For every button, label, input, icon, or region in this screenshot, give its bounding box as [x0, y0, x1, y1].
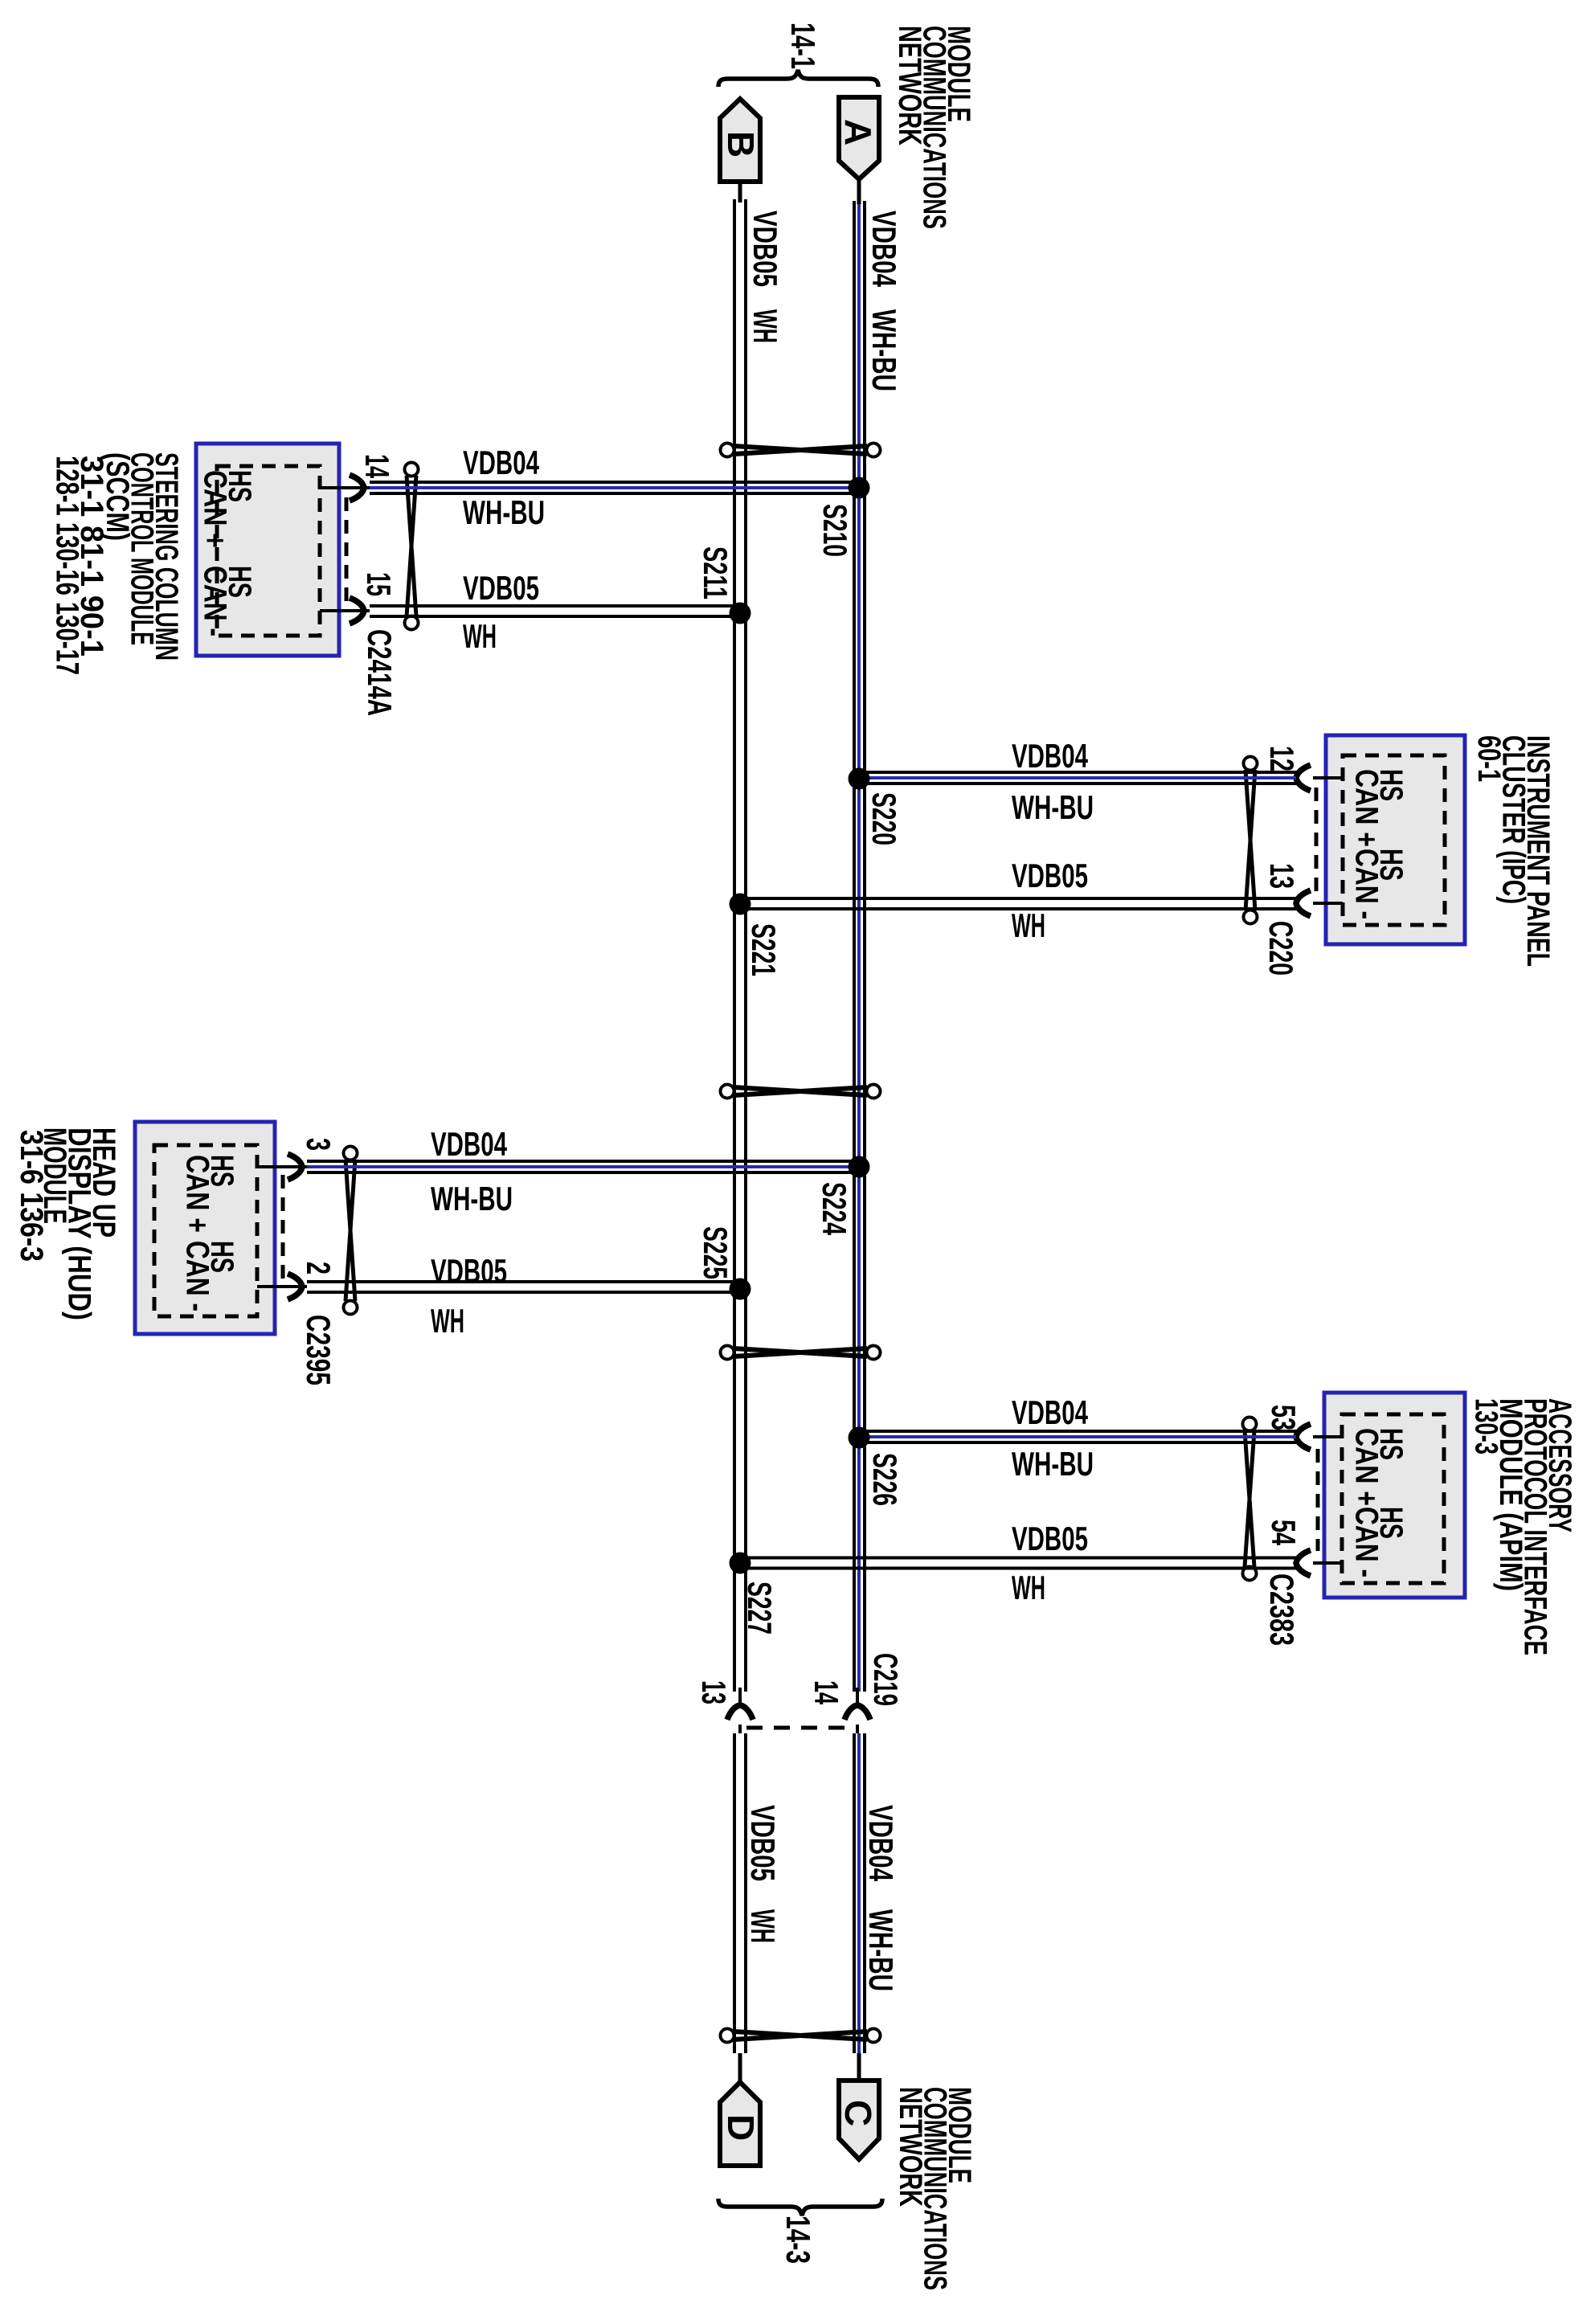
svg-text:VDB05: VDB05 — [463, 569, 539, 607]
svg-text:WH-BU: WH-BU — [1012, 1445, 1094, 1483]
svg-text:60-1: 60-1 — [1471, 735, 1507, 782]
svg-text:C2414A: C2414A — [361, 629, 399, 716]
svg-text:S210: S210 — [816, 504, 854, 557]
svg-text:14-3: 14-3 — [779, 2216, 817, 2264]
svg-text:VDB04: VDB04 — [1012, 737, 1088, 775]
svg-text:S227: S227 — [741, 1581, 779, 1635]
svg-text:VDB05: VDB05 — [744, 1805, 782, 1881]
svg-text:VDB04: VDB04 — [463, 444, 539, 481]
svg-text:CAN +: CAN + — [198, 470, 233, 548]
svg-text:15: 15 — [360, 572, 398, 596]
svg-text:A: A — [837, 119, 879, 145]
svg-text:128-1 130-16 130-17: 128-1 130-16 130-17 — [50, 456, 85, 675]
svg-text:WH-BU: WH-BU — [865, 309, 903, 391]
svg-text:WH: WH — [463, 617, 497, 655]
svg-text:WH-BU: WH-BU — [862, 1909, 900, 1991]
svg-text:WH: WH — [1012, 1569, 1045, 1606]
svg-text:54: 54 — [1265, 1520, 1303, 1545]
svg-text:S225: S225 — [697, 1226, 734, 1279]
svg-text:VDB05: VDB05 — [431, 1252, 507, 1290]
svg-text:CAN -: CAN - — [198, 566, 233, 636]
svg-text:12: 12 — [1263, 746, 1301, 771]
svg-text:53: 53 — [1265, 1405, 1303, 1430]
svg-text:VDB05: VDB05 — [746, 211, 784, 287]
svg-text:VDB04: VDB04 — [431, 1125, 507, 1163]
svg-text:14-1: 14-1 — [784, 23, 822, 69]
svg-text:CAN -: CAN - — [1349, 1507, 1384, 1577]
svg-text:CAN -: CAN - — [180, 1241, 215, 1311]
svg-text:WH-BU: WH-BU — [431, 1180, 513, 1217]
svg-text:14: 14 — [808, 1680, 845, 1704]
svg-text:14: 14 — [358, 454, 396, 478]
svg-text:S211: S211 — [697, 546, 734, 599]
svg-text:C2383: C2383 — [1263, 1573, 1301, 1646]
svg-text:VDB05: VDB05 — [1012, 857, 1088, 894]
svg-text:S220: S220 — [865, 792, 903, 845]
svg-text:CAN -: CAN - — [1349, 849, 1384, 919]
svg-text:CAN +: CAN + — [1349, 1428, 1384, 1506]
svg-text:CAN +: CAN + — [1349, 769, 1384, 847]
svg-text:WH: WH — [746, 309, 784, 343]
svg-text:C: C — [837, 2100, 879, 2126]
svg-text:WH: WH — [1012, 906, 1045, 944]
svg-text:WH-BU: WH-BU — [463, 493, 545, 531]
svg-text:S221: S221 — [745, 923, 783, 976]
svg-text:C220: C220 — [1262, 921, 1300, 976]
svg-text:S226: S226 — [866, 1453, 904, 1506]
svg-text:WH-BU: WH-BU — [1012, 788, 1094, 826]
svg-text:CAN +: CAN + — [180, 1155, 215, 1233]
svg-text:D: D — [720, 2114, 762, 2141]
svg-text:3: 3 — [300, 1138, 337, 1151]
svg-text:31-6 136-3: 31-6 136-3 — [14, 1130, 49, 1262]
svg-text:WH: WH — [744, 1909, 782, 1943]
svg-text:13: 13 — [695, 1680, 733, 1704]
svg-text:B: B — [720, 131, 762, 158]
svg-text:WH: WH — [431, 1302, 464, 1340]
svg-text:13: 13 — [1263, 863, 1301, 889]
svg-text:S224: S224 — [816, 1182, 853, 1235]
svg-text:C219: C219 — [867, 1653, 905, 1706]
svg-text:130-3: 130-3 — [1469, 1398, 1504, 1455]
svg-text:2: 2 — [300, 1262, 337, 1275]
svg-text:VDB05: VDB05 — [1012, 1520, 1088, 1557]
svg-text:NETWORK: NETWORK — [892, 26, 927, 145]
svg-text:VDB04: VDB04 — [862, 1805, 900, 1881]
svg-text:VDB04: VDB04 — [1012, 1393, 1088, 1431]
svg-text:NETWORK: NETWORK — [893, 2087, 928, 2207]
svg-text:C2395: C2395 — [300, 1315, 337, 1385]
svg-text:VDB04: VDB04 — [865, 211, 903, 287]
